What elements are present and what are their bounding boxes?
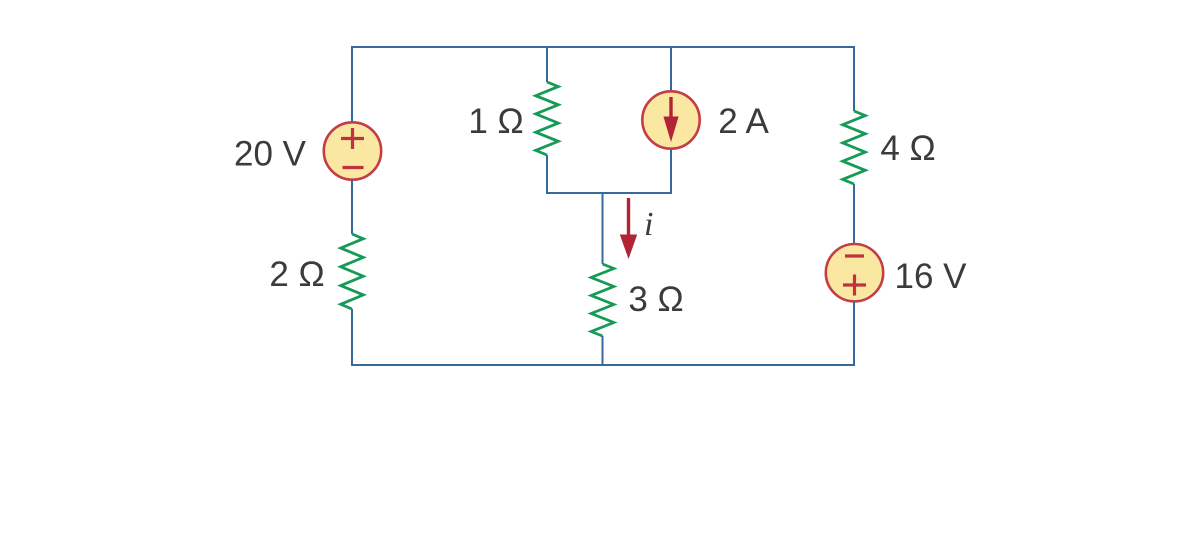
wire middle branch upper (1 ohm): [546, 46, 548, 82]
wire top: [352, 46, 854, 48]
wire left branch lower: [351, 309, 353, 366]
wire right branch upper: [853, 46, 855, 111]
svg-text:2 Ω: 2 Ω: [269, 255, 324, 294]
voltage source V2 16V: [826, 244, 883, 301]
voltage source V1 20V: [324, 122, 381, 179]
svg-text:20 V: 20 V: [234, 135, 307, 174]
resistor R 2ohm: [341, 234, 364, 309]
resistor R 4ohm: [843, 111, 866, 184]
resistor R 3ohm: [591, 264, 614, 336]
wire right branch lower: [853, 302, 855, 366]
wire middle branch lower (1 ohm): [547, 155, 672, 193]
wire current source branch lower: [670, 149, 672, 193]
svg-text:16 V: 16 V: [895, 257, 968, 296]
current arrow i: [620, 198, 637, 259]
svg-text:3 Ω: 3 Ω: [628, 280, 683, 319]
svg-text:2 A: 2 A: [718, 102, 769, 141]
wire left branch upper: [351, 46, 353, 122]
wire current source branch upper: [670, 46, 672, 91]
resistor R 1ohm: [536, 82, 559, 155]
current source I1 2A: [642, 91, 699, 148]
wire bottom: [352, 364, 854, 366]
wire right branch middle: [853, 184, 855, 244]
svg-text:4 Ω: 4 Ω: [880, 129, 935, 168]
svg-text:1 Ω: 1 Ω: [468, 102, 523, 141]
svg-text:i: i: [644, 206, 653, 243]
wire 3 ohm branch upper: [602, 193, 604, 264]
wire 3 ohm branch lower: [602, 336, 604, 366]
wire left branch middle: [351, 180, 353, 234]
